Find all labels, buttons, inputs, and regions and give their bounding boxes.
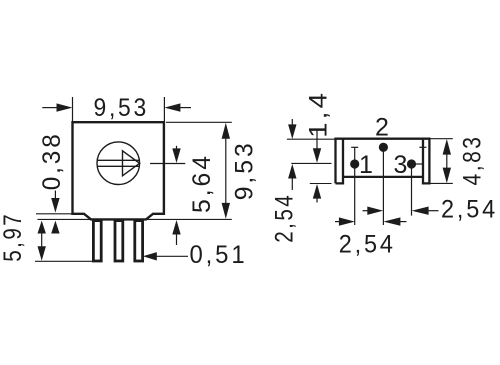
svg-text:0,38: 0,38 [38, 131, 66, 190]
dim 1,4: down arrow with long tail [313, 131, 321, 163]
svg-text:2,54: 2,54 [271, 193, 299, 243]
adjustment screw circle [97, 142, 140, 185]
dim 0,38: lower extension line (seating plane level) [38, 218, 92, 220]
svg-text:4,83: 4,83 [459, 135, 487, 186]
seating plane right extension line [146, 218, 232, 220]
dim 0,38: upper extension line (side bottom level) [36, 213, 84, 215]
svg-text:1,4: 1,4 [304, 90, 332, 138]
pin 1 dot [350, 159, 359, 168]
screw slot line lower [97, 165, 139, 167]
dim 5,97: dimension line with arrows [38, 221, 46, 261]
svg-text:9,53: 9,53 [230, 140, 258, 200]
dim 0,38: up arrow [51, 221, 59, 234]
right view left dims: top edge extension line [287, 138, 335, 140]
svg-text:3: 3 [394, 151, 408, 179]
dim 9,53 top: left arrow [42, 103, 72, 111]
pin 2 dot [379, 143, 388, 152]
tick from pin3 dot to inner wall [413, 163, 422, 165]
svg-text:2: 2 [375, 114, 389, 142]
tick on pin1 line at pin2 level [351, 146, 358, 148]
dim 2,54 left: up arrow [288, 164, 296, 190]
dim 9,53 right: top extension line [166, 121, 232, 123]
svg-text:1: 1 [359, 151, 373, 179]
dim 0,51: arrow pointing to pin P3 [143, 252, 188, 260]
dim 5,64: down arrow [172, 146, 180, 163]
pin 3 dot [407, 159, 416, 168]
dim 2,54 bottom (pin1-pin2): right arrow [383, 217, 406, 225]
dim 9,53 top: right arrow [164, 103, 191, 111]
svg-text:5,97: 5,97 [0, 212, 27, 262]
left view: trimmer body outline [73, 122, 164, 219]
right view left dims: tab bottom extension line [310, 183, 332, 185]
dim 9,53 right: dimension line with arrows [222, 123, 230, 219]
dim 5,64: slot center level line [150, 163, 185, 165]
svg-text:2,54: 2,54 [339, 230, 396, 258]
right view: trimmer side body outline [336, 139, 430, 184]
dim 4,83: bottom extension line [431, 182, 453, 184]
screw slot line upper [97, 159, 139, 161]
dim 1,4: up arrow [313, 184, 321, 203]
pin 3 center line [411, 164, 413, 216]
dim 0,38: down arrow [51, 191, 59, 213]
svg-text:0,51: 0,51 [190, 241, 248, 269]
pin 1 center line [354, 147, 356, 225]
svg-text:9,53: 9,53 [94, 94, 150, 122]
screw direction triangle [123, 151, 140, 176]
pin P2 (left view) [115, 221, 123, 261]
dim 4,83: top extension line [431, 138, 453, 140]
pin P1 (left view) [93, 221, 101, 261]
pin bottom extension line [35, 260, 92, 262]
tick on right inner wall at pin2 level [419, 146, 426, 148]
dim 5,64: up arrow [172, 220, 180, 245]
dim 4,83: dimension line with arrows [443, 139, 451, 183]
pin P3 (left view) [135, 221, 143, 261]
right view left dims: pin1/3 level extension line [291, 162, 331, 164]
dim 2,54 right (pin2-pin3): left arrow [363, 207, 384, 215]
dim 2,54 bottom (pin1-pin2): left arrow [335, 217, 355, 225]
dim 2,54 right (pin2-pin3): right arrow [412, 207, 439, 215]
dim 2,54 left: down arrow [288, 119, 296, 139]
svg-text:2,54: 2,54 [441, 196, 498, 224]
pin 2 center line [382, 147, 384, 225]
svg-text:5,64: 5,64 [188, 153, 216, 213]
dim 9,53 top: right extension line [163, 97, 165, 121]
dim 9,53 top: left extension line [72, 97, 74, 121]
